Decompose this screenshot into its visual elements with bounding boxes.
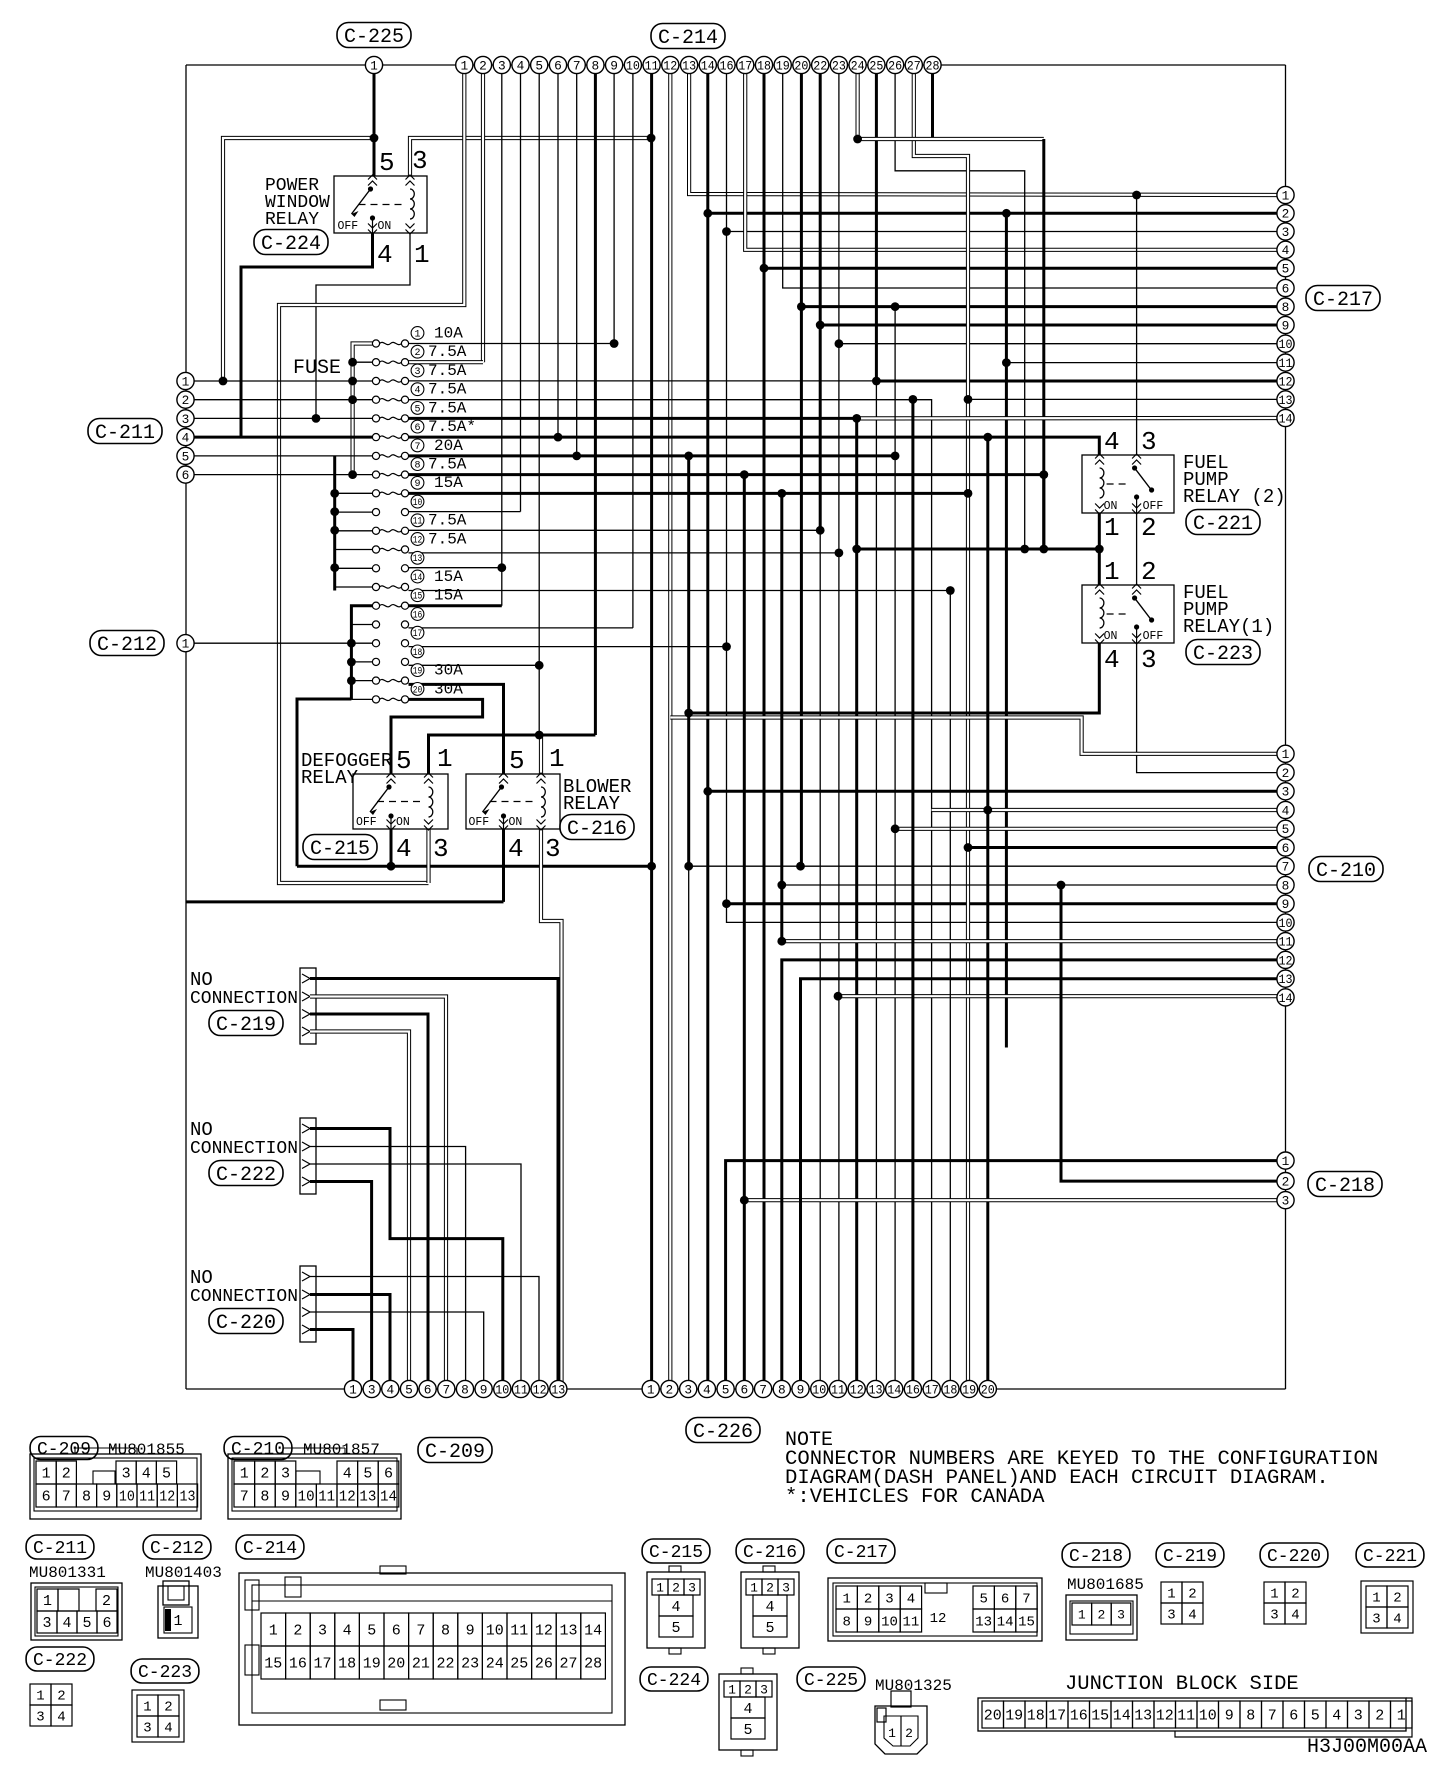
wire fuse18 output xyxy=(409,664,540,666)
svg-text:C-221: C-221 xyxy=(1193,513,1253,536)
junction bus A fuse2 xyxy=(348,358,357,367)
bottom connector C-226 pin 12 xyxy=(848,1380,865,1397)
connector C-214 pin 28 xyxy=(924,56,941,73)
svg-text:20: 20 xyxy=(984,1708,1002,1725)
svg-text:8: 8 xyxy=(1282,878,1290,893)
svg-text:5: 5 xyxy=(363,1466,372,1483)
connector C-217 pin 6 xyxy=(1277,279,1294,296)
C-221 r1 xyxy=(1366,1586,1387,1607)
relay fuel pump 1 xyxy=(1082,585,1174,643)
wire C-210 pin8 line xyxy=(782,884,1286,886)
connector C-217 pin 13 xyxy=(1277,391,1294,408)
svg-text:6: 6 xyxy=(182,468,190,483)
svg-text:7: 7 xyxy=(442,1382,450,1397)
connector C-210 pin 1 xyxy=(1277,745,1294,762)
svg-text:11: 11 xyxy=(831,1382,845,1397)
relay fuel pump 2 coil xyxy=(1100,468,1104,498)
junction relay feed xyxy=(535,731,544,740)
svg-text:6: 6 xyxy=(554,58,562,73)
svg-text:2: 2 xyxy=(62,1466,71,1483)
connector C-222 pin 3 arrow xyxy=(302,1160,310,1169)
wire fuse10 output xyxy=(409,511,521,513)
svg-text:C-225: C-225 xyxy=(344,26,404,49)
label C-222 table tag xyxy=(26,1647,94,1671)
wire C-210 pin11 line xyxy=(782,939,1286,943)
junction bus C xyxy=(347,676,356,685)
svg-text:7: 7 xyxy=(1268,1708,1277,1725)
wire frame top edge xyxy=(186,64,1286,66)
connector C-214 pin 3 xyxy=(493,56,510,73)
svg-text:1: 1 xyxy=(240,1466,249,1483)
svg-text:21: 21 xyxy=(412,1656,430,1673)
svg-text:10: 10 xyxy=(881,1614,898,1630)
connector C-212 pin 1 xyxy=(177,635,194,652)
svg-text:18: 18 xyxy=(757,58,771,73)
svg-text:6: 6 xyxy=(1282,281,1290,296)
C-224 row1 xyxy=(724,1681,740,1697)
connector C-220 pin 2 arrow xyxy=(302,1290,310,1299)
bottom connector C-226 pin 3 xyxy=(680,1380,697,1397)
connector C-214 pin 8 xyxy=(587,56,604,73)
wire column x1006 from C-217 pin2 line down to collector xyxy=(1005,213,1008,1047)
wire C-217 pin2 line xyxy=(708,212,1286,215)
pin arrow xyxy=(1095,640,1104,645)
wire feed column to fuel pump junction xyxy=(1042,139,1045,549)
svg-text:10: 10 xyxy=(812,1382,826,1397)
pin arrow xyxy=(387,826,396,831)
svg-text:9: 9 xyxy=(414,479,420,490)
svg-text:ON: ON xyxy=(396,816,410,829)
C-222 r1 xyxy=(30,1684,51,1705)
svg-text:4: 4 xyxy=(396,834,412,864)
svg-text:C-210: C-210 xyxy=(1316,860,1376,883)
svg-text:4: 4 xyxy=(1104,427,1120,457)
svg-text:2: 2 xyxy=(1291,1586,1299,1602)
svg-text:2: 2 xyxy=(414,348,420,359)
junction on fuse row5 xyxy=(312,414,321,423)
connector C-222 pin 2 arrow xyxy=(302,1142,310,1151)
bottom connector C-209 pin 12 xyxy=(531,1380,548,1397)
fuse 6 number xyxy=(411,420,424,433)
svg-text:2: 2 xyxy=(1282,207,1290,222)
svg-text:1: 1 xyxy=(269,1623,278,1640)
svg-text:27: 27 xyxy=(559,1656,577,1673)
label C-211 table tag xyxy=(26,1535,94,1559)
wire fuse2 output xyxy=(409,360,484,364)
connector C-214 pin 25 xyxy=(868,56,885,73)
wire C-211 pin4 to fuse 6 xyxy=(194,436,373,439)
junction bus A fuse3 xyxy=(348,377,357,386)
svg-text:1: 1 xyxy=(656,1580,664,1595)
connector table C-215 xyxy=(647,1572,705,1648)
svg-text:3: 3 xyxy=(122,1466,131,1483)
svg-text:19: 19 xyxy=(776,58,790,73)
fuse 13 xyxy=(372,565,379,572)
wire C-219 pin2 to bottom pin7 xyxy=(310,997,446,1390)
svg-text:12: 12 xyxy=(535,1623,553,1640)
svg-text:14: 14 xyxy=(1113,1708,1131,1725)
wire C-214 pin24 column xyxy=(855,74,859,139)
wire C-214 pin7 column to fuse 7 line xyxy=(576,74,578,456)
svg-text:2: 2 xyxy=(672,1580,680,1595)
C-209 row2 xyxy=(36,1484,56,1507)
svg-text:26: 26 xyxy=(888,58,902,73)
svg-text:16: 16 xyxy=(1070,1708,1088,1725)
wire C-217 pin5 line xyxy=(764,267,1286,270)
wire C-211 pin6 to fuse 8 xyxy=(194,474,373,476)
wire C-214 pin26 to fuel pump feed junction xyxy=(895,74,1025,549)
label C-212 table tag xyxy=(143,1535,211,1559)
svg-text:3: 3 xyxy=(1167,1607,1175,1623)
wire bottom pin3 riser xyxy=(688,866,690,1389)
C-211 r1b xyxy=(58,1589,79,1611)
wire relay feed line to defogger/blower pin1 xyxy=(429,735,596,774)
svg-text:9: 9 xyxy=(1225,1708,1234,1725)
svg-text:16: 16 xyxy=(720,58,734,73)
svg-text:13: 13 xyxy=(1279,393,1293,408)
svg-text:1: 1 xyxy=(1270,1586,1278,1602)
svg-text:C-223: C-223 xyxy=(1193,643,1253,666)
wire frame right edge xyxy=(1285,65,1287,1389)
svg-text:5: 5 xyxy=(414,404,420,415)
wire frame bottom edge xyxy=(186,1388,1286,1390)
junction fuse18 row xyxy=(535,661,544,670)
svg-text:7: 7 xyxy=(240,1489,249,1506)
svg-text:4: 4 xyxy=(142,1466,151,1483)
connector C-218 pin 2 xyxy=(1277,1173,1294,1190)
svg-text:12: 12 xyxy=(850,1382,864,1397)
connector C-220 pin 1 arrow xyxy=(302,1272,310,1281)
connector C-222 pin 1 arrow xyxy=(302,1124,310,1133)
svg-text:12: 12 xyxy=(159,1489,175,1506)
connector C-210 pin 6 xyxy=(1277,839,1294,856)
wire C-214 pin5 column to relay feed line xyxy=(538,74,540,735)
junction on C-214 pin11 column xyxy=(647,134,656,143)
svg-text:C-217: C-217 xyxy=(1313,289,1373,312)
svg-text:5: 5 xyxy=(1282,262,1290,277)
wire fuse bus C xyxy=(351,606,372,700)
svg-text:4: 4 xyxy=(1104,645,1120,675)
fuse 7 xyxy=(372,452,379,459)
junction at fuse row3 xyxy=(219,377,228,386)
C-210 row1b xyxy=(337,1461,358,1484)
wire C-214 pin8 column to relay feed line xyxy=(594,74,597,735)
connector C-217 pin 4 xyxy=(1277,241,1294,258)
svg-text:20: 20 xyxy=(794,58,808,73)
wire C-222 pin1 to bottom pin10 xyxy=(310,1129,503,1390)
svg-text:1: 1 xyxy=(36,1688,44,1704)
svg-text:5: 5 xyxy=(405,1382,413,1397)
svg-text:13: 13 xyxy=(1279,972,1293,987)
bottom connector C-226 pin 5 xyxy=(717,1380,734,1397)
svg-text:3: 3 xyxy=(1282,785,1290,800)
wire C-210 pin3 line xyxy=(708,790,1286,793)
junction C-225/relay5 tap xyxy=(370,134,379,143)
wire C-217 pin10 line xyxy=(839,343,1286,345)
relay blower coil xyxy=(541,787,545,817)
wire column 22 lower part to bottom pin10 xyxy=(819,530,821,1389)
svg-text:1: 1 xyxy=(1167,1586,1175,1602)
svg-text:2: 2 xyxy=(164,1699,172,1715)
junction C-217 pin9 tap xyxy=(816,321,825,330)
wire fuse 18 supply stub xyxy=(351,661,372,663)
fuse 13 number xyxy=(411,551,424,564)
bottom connector C-226 pin 18 xyxy=(942,1380,959,1397)
connector C-214 pin 7 xyxy=(568,56,585,73)
junction bus A fuse4 xyxy=(348,395,357,404)
svg-text:16: 16 xyxy=(413,610,423,621)
svg-text:C-221: C-221 xyxy=(1363,1547,1417,1567)
junction fuse17 row xyxy=(722,642,731,651)
wire C-211 pin5 to fuse 7 xyxy=(194,455,373,457)
connector table C-216 xyxy=(741,1572,799,1648)
bottom connector C-226 pin 6 xyxy=(736,1380,753,1397)
svg-text:23: 23 xyxy=(461,1656,479,1673)
svg-text:11: 11 xyxy=(318,1489,335,1506)
svg-text:28: 28 xyxy=(584,1656,602,1673)
svg-text:17: 17 xyxy=(1048,1708,1066,1725)
bottom connector C-226 pin 8 xyxy=(773,1380,790,1397)
junction bus B xyxy=(330,563,339,572)
fuse 10 xyxy=(372,508,379,515)
fuse 15 xyxy=(372,602,379,609)
wire fuse14 output down to bottom pin18 xyxy=(409,591,951,1390)
label C-210 table tag xyxy=(224,1437,292,1461)
bottom connector C-226 pin 19 xyxy=(961,1380,978,1397)
C-211 r2 xyxy=(37,1611,57,1633)
connector C-214 pin 12 xyxy=(662,56,679,73)
svg-text:3: 3 xyxy=(498,58,506,73)
fuse 4 xyxy=(372,396,379,403)
connector C-214 pin 17 xyxy=(737,56,754,73)
C-217 r2a xyxy=(836,1609,857,1632)
bottom connector C-226 pin 20 xyxy=(979,1380,996,1397)
svg-text:2: 2 xyxy=(260,1466,269,1483)
svg-text:4: 4 xyxy=(1291,1607,1299,1623)
bottom connector C-226 pin 1 xyxy=(642,1380,659,1397)
wire fuse16 output xyxy=(409,627,633,629)
svg-text:5: 5 xyxy=(82,1615,91,1632)
svg-text:9: 9 xyxy=(281,1489,290,1506)
connector C-214 pin 4 xyxy=(512,56,529,73)
wire fuse 11 supply stub xyxy=(335,530,373,532)
svg-text:C-210: C-210 xyxy=(231,1440,285,1460)
label C-220 tag xyxy=(209,1309,283,1335)
wire C-219 pin1 to bottom pin13 xyxy=(310,979,558,1390)
svg-text:17: 17 xyxy=(738,58,752,73)
bottom connector C-226 pin 2 xyxy=(661,1380,678,1397)
svg-text:6: 6 xyxy=(392,1623,401,1640)
wire C-214 pin18 column to bottom connector pin7 xyxy=(763,74,766,1389)
wire feed line from column 24 xyxy=(857,137,1044,141)
C-214 row2 xyxy=(261,1646,286,1679)
junction fuse1 row xyxy=(610,339,619,348)
svg-text:4: 4 xyxy=(743,1701,752,1718)
junction fuse8 feed xyxy=(1039,470,1048,479)
svg-text:4: 4 xyxy=(1282,243,1290,258)
svg-text:8: 8 xyxy=(778,1382,786,1397)
pin arrow xyxy=(1132,584,1141,589)
wire bottom pin9 riser to C-210 pin13 xyxy=(801,979,1286,1389)
wire riser bottom pin20 xyxy=(986,437,989,1389)
svg-text:5: 5 xyxy=(765,1620,774,1637)
svg-text:NO: NO xyxy=(190,1119,213,1141)
wire C-222 pin3 to bottom pin11 xyxy=(310,1164,521,1389)
svg-text:12: 12 xyxy=(1279,953,1293,968)
svg-text:4: 4 xyxy=(182,431,190,446)
connector C-210 pin 13 xyxy=(1277,970,1294,987)
wire fuse 10 supply stub xyxy=(335,511,373,513)
svg-text:9: 9 xyxy=(102,1489,111,1506)
svg-text:15A: 15A xyxy=(434,568,463,586)
svg-text:C-222: C-222 xyxy=(216,1164,276,1187)
svg-text:1: 1 xyxy=(842,1591,850,1607)
pin arrow xyxy=(368,175,377,180)
relay defogger coil xyxy=(429,787,433,817)
svg-text:2: 2 xyxy=(1188,1586,1196,1602)
svg-text:8: 8 xyxy=(260,1489,269,1506)
svg-text:8: 8 xyxy=(1246,1708,1255,1725)
svg-text:1: 1 xyxy=(414,240,430,270)
wire fuel pump relay1 pin4 down xyxy=(689,643,1100,713)
wire fuse8 output to fuel pump feed xyxy=(409,473,1044,476)
svg-text:JUNCTION BLOCK SIDE: JUNCTION BLOCK SIDE xyxy=(1065,1673,1299,1696)
svg-text:9: 9 xyxy=(1282,318,1290,333)
fuse 9 xyxy=(372,490,379,497)
svg-text:MU801403: MU801403 xyxy=(145,1564,222,1582)
junction relay bottom line xyxy=(647,862,656,871)
svg-text:15A: 15A xyxy=(434,474,463,492)
relay power window switch xyxy=(368,186,373,191)
C-218 cells xyxy=(1072,1603,1092,1625)
wire C-217 pin9 line xyxy=(820,324,1285,327)
svg-text:9: 9 xyxy=(864,1614,872,1630)
junction on fuse7 line xyxy=(684,452,693,461)
connector C-214 pin 22 xyxy=(812,56,829,73)
label C-217 table tag xyxy=(827,1539,895,1563)
wire C-214 pin16 column to C-210 pin10 xyxy=(727,74,1286,922)
relay blower dashed link xyxy=(490,801,535,803)
wire bottom pin5 riser to C-218 pin1 xyxy=(726,1161,1286,1389)
wire C-218 pin3 line xyxy=(744,1198,1285,1202)
fuse 18 number xyxy=(411,645,424,658)
svg-text:2: 2 xyxy=(905,1726,913,1741)
connector C-222 connector body xyxy=(300,1118,316,1194)
C-221 r2 xyxy=(1366,1607,1387,1628)
svg-text:5: 5 xyxy=(535,58,543,73)
svg-text:4: 4 xyxy=(414,386,420,397)
label C-225 table tag xyxy=(797,1667,865,1691)
junction fuse11 line xyxy=(816,526,825,535)
svg-text:5: 5 xyxy=(379,148,395,178)
svg-text:12: 12 xyxy=(1279,374,1293,389)
label C-214 table tag xyxy=(236,1535,304,1559)
svg-text:22: 22 xyxy=(436,1656,454,1673)
wire C-210 pin1 line xyxy=(670,718,1285,754)
svg-text:11: 11 xyxy=(645,58,659,73)
relay power window dashed link xyxy=(359,204,404,206)
svg-text:12: 12 xyxy=(930,1611,947,1627)
fuse 14 xyxy=(372,583,379,590)
svg-text:20: 20 xyxy=(387,1656,405,1673)
bottom connector C-209 pin 1 xyxy=(344,1380,361,1397)
C-223 r2 xyxy=(137,1716,158,1737)
svg-text:1: 1 xyxy=(728,1682,736,1697)
wire C-217 pin8 line xyxy=(801,305,1285,308)
bottom connector C-226 pin 4 xyxy=(698,1380,715,1397)
svg-text:18: 18 xyxy=(943,1382,957,1397)
wire C-211 pin3 to fuse 5 xyxy=(194,417,373,419)
pin arrow xyxy=(1132,640,1141,645)
svg-text:2: 2 xyxy=(666,1382,674,1397)
bottom connector C-226 pin 13 xyxy=(867,1380,884,1397)
wire column 25 lower part to bottom pin13 xyxy=(875,381,877,1389)
connector C-211 pin 6 xyxy=(177,466,194,483)
label C-224 table tag xyxy=(640,1667,708,1691)
pin arrow xyxy=(406,175,415,180)
svg-text:4: 4 xyxy=(1188,1607,1196,1623)
connector C-219 pin 1 arrow xyxy=(302,974,310,983)
wire fuse7 output xyxy=(409,454,896,457)
junction fuse7 riser xyxy=(891,452,900,461)
svg-text:9: 9 xyxy=(466,1623,475,1640)
label C-212 tag xyxy=(90,631,164,657)
fuse 9 number xyxy=(411,476,424,489)
svg-text:C-224: C-224 xyxy=(261,233,321,256)
wire C-214 pin19 to C-217 pin6 xyxy=(783,74,1286,288)
wire C-212 pin1 to fuse 17 row xyxy=(194,642,351,644)
svg-text:13: 13 xyxy=(559,1623,577,1640)
C-223 r1 xyxy=(137,1695,158,1716)
svg-text:2: 2 xyxy=(1141,557,1157,587)
wire fuse 12 supply stub xyxy=(335,549,373,551)
svg-text:9: 9 xyxy=(797,1382,805,1397)
svg-text:4: 4 xyxy=(164,1720,172,1736)
svg-text:23: 23 xyxy=(832,58,846,73)
connector C-222 pin 4 arrow xyxy=(302,1177,310,1186)
relay defogger dashed link xyxy=(377,801,422,803)
wire C-214 pin2 column to fuse 2 xyxy=(481,74,485,362)
svg-text:8: 8 xyxy=(842,1614,850,1630)
wire fuse 9 supply stub xyxy=(335,492,373,494)
connector table C-221 xyxy=(1361,1581,1413,1633)
svg-text:3: 3 xyxy=(1141,427,1157,457)
junction C-210 pin6 xyxy=(964,843,973,852)
wire C-214 pin22 column xyxy=(819,74,822,530)
svg-text:MU801685: MU801685 xyxy=(1067,1576,1144,1594)
wire fuse 14 supply stub xyxy=(335,586,373,588)
svg-text:3: 3 xyxy=(688,1580,696,1595)
C-214 row1 xyxy=(261,1613,286,1646)
label C-221 table tag xyxy=(1356,1543,1424,1567)
pin arrow xyxy=(368,230,377,235)
connector C-217 pin 2 xyxy=(1277,205,1294,222)
wire C-220 pin4 to bottom pin1 xyxy=(310,1330,353,1390)
wire bottom pin6 riser xyxy=(743,475,746,1389)
svg-text:C-222: C-222 xyxy=(33,1651,87,1671)
connector C-211 pin 4 xyxy=(177,429,194,446)
junction fuel pump feed 2 xyxy=(1039,545,1048,554)
label C-219 tag xyxy=(209,1011,283,1037)
wire riser to bottom pin14 xyxy=(894,307,896,1389)
svg-text:C-226: C-226 xyxy=(693,1421,753,1444)
wire fuse 2 supply stub xyxy=(353,361,373,363)
connector C-220 connector body xyxy=(300,1266,316,1342)
svg-text:19: 19 xyxy=(962,1382,976,1397)
wire C-214 pin20 column xyxy=(800,74,803,866)
svg-text:18: 18 xyxy=(413,648,423,659)
svg-text:4: 4 xyxy=(57,1709,65,1725)
